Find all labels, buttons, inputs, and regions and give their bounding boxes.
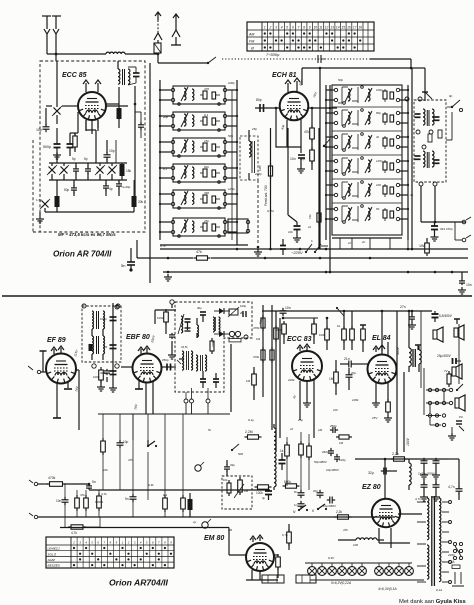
wire V4 pins bottom xyxy=(138,381,140,389)
component box below EM80 a xyxy=(262,575,284,583)
svg-text:25p: 25p xyxy=(203,219,209,223)
svg-text:470k: 470k xyxy=(253,326,260,330)
ground xyxy=(375,400,377,403)
capacitor C48 260p xyxy=(330,448,332,451)
switch S-tone xyxy=(337,308,344,316)
svg-text:BESZÉD: BESZÉD xyxy=(48,563,61,568)
wire bus left of block C xyxy=(325,85,327,240)
switch S-em xyxy=(231,449,233,451)
dashed box ratio detector outline xyxy=(175,302,252,392)
transformer T7 primary winding lower xyxy=(427,545,429,579)
svg-text:1M: 1M xyxy=(103,345,108,349)
capacitor C31b 27n xyxy=(411,314,413,317)
wire bus B continues xyxy=(211,257,468,259)
wire V3 plate right xyxy=(76,369,79,371)
wire V5 pins top arrows xyxy=(299,347,301,351)
coil L6 heater winding xyxy=(356,538,377,540)
resistor R21b 1k xyxy=(360,324,366,326)
svg-text:17: 17 xyxy=(353,26,357,30)
antenna A3 dipole arrow xyxy=(173,14,179,18)
svg-text:72k: 72k xyxy=(308,214,312,219)
transformer TF3 secondary xyxy=(205,355,207,371)
resistor P3b 10k xyxy=(228,480,230,483)
wire unit B4 right stubs xyxy=(227,167,237,169)
transformer TF3 core xyxy=(200,355,202,371)
svg-text:50p: 50p xyxy=(64,188,70,192)
coil L3 tunable xyxy=(181,316,183,333)
svg-text:4p: 4p xyxy=(109,187,113,191)
coil unit C6 resistor xyxy=(390,211,394,218)
capacitor CF7 dark xyxy=(213,378,219,380)
svg-text:6p: 6p xyxy=(449,94,453,98)
svg-text:4,7k: 4,7k xyxy=(101,492,107,496)
svg-text:100k: 100k xyxy=(157,316,164,320)
coil unit C5 tunable coil a xyxy=(348,184,350,196)
trimmer C-top xyxy=(425,92,432,99)
wire box E internals xyxy=(91,329,93,336)
trimmer CF4 2k xyxy=(229,309,238,315)
coil L5 filter choke xyxy=(409,463,411,485)
node phono terminal row 4 xyxy=(435,423,438,426)
wire V3 pins bottom xyxy=(56,383,58,412)
svg-text:3k: 3k xyxy=(410,193,414,197)
wire top bus y68 xyxy=(302,67,411,69)
svg-text:10: 10 xyxy=(314,26,318,30)
wire xyxy=(38,483,48,485)
svg-text:220p: 220p xyxy=(254,172,262,176)
svg-text:EM 80: EM 80 xyxy=(204,535,224,542)
wire unit B1 right stubs xyxy=(227,89,237,91)
capacitor T-bar secondary xyxy=(415,344,421,346)
svg-text:6,3V: 6,3V xyxy=(328,556,335,560)
node output terminal AF xyxy=(462,220,466,224)
resistor R11 100k xyxy=(100,367,102,370)
svg-text:25μ/450V: 25μ/450V xyxy=(436,354,451,358)
svg-text:18: 18 xyxy=(358,26,362,30)
svg-text:50p: 50p xyxy=(228,134,233,138)
wire antenna bus to coil xyxy=(47,53,106,55)
svg-text:10p: 10p xyxy=(123,440,129,444)
svg-text:Ø: Ø xyxy=(250,46,254,50)
coil unit C2 internal wires xyxy=(341,110,343,126)
capacitor C9c 5p xyxy=(87,166,89,169)
svg-text:10p: 10p xyxy=(36,128,42,132)
capacitor CD1 dark xyxy=(415,113,421,115)
capacitor C24a 100p xyxy=(110,316,117,318)
wire T7 taps left xyxy=(417,501,426,503)
svg-text:80p: 80p xyxy=(376,111,381,115)
wire below box D xyxy=(420,186,422,222)
resistor R20 1k xyxy=(343,326,345,329)
svg-text:ECC 85: ECC 85 xyxy=(62,72,87,79)
capacitor CD3 dark xyxy=(415,155,421,157)
resistor R31 xyxy=(102,438,104,441)
coil unit C1 internal wires xyxy=(341,87,343,103)
switch S1 band arrow xyxy=(208,57,216,63)
wire bus tone y517 xyxy=(38,516,395,518)
resistor RD1 xyxy=(428,134,432,142)
coil block C outer frame xyxy=(332,85,402,235)
coil unit C3 tunable coil a xyxy=(348,136,350,148)
coil unit B1 tunable coil xyxy=(184,88,186,100)
svg-text:324 470p: 324 470p xyxy=(440,227,453,231)
wire top feed y66 xyxy=(411,67,425,69)
wire block C bottom to bus xyxy=(332,237,402,239)
transformer T7 secondary winding xyxy=(439,498,441,582)
tube V3 EF 89 xyxy=(46,354,76,384)
svg-text:4÷20p: 4÷20p xyxy=(122,185,131,189)
table dots xyxy=(73,547,75,549)
transformer T2 secondary xyxy=(432,151,434,167)
transformer T6 secondary xyxy=(419,350,421,364)
wire V1 cathode leads xyxy=(77,112,79,133)
wire V6 pins xyxy=(387,342,389,356)
svg-text:1k: 1k xyxy=(290,427,294,431)
transformer T-FM core xyxy=(122,69,124,85)
svg-text:11: 11 xyxy=(319,26,323,30)
svg-text:390: 390 xyxy=(204,191,209,195)
capacitor CF1 xyxy=(185,318,191,320)
resistor R37 2,2k xyxy=(335,516,338,518)
svg-text:5n: 5n xyxy=(125,497,129,501)
transformer TF2 primary xyxy=(182,351,184,370)
svg-text:0,1μ: 0,1μ xyxy=(248,418,254,422)
coil unit B4 terminals xyxy=(171,166,174,169)
dashed box FM tuner unit xyxy=(40,61,145,232)
wire FM tuning band bottom bus xyxy=(49,179,127,181)
transformer T3 core xyxy=(96,311,98,329)
svg-text:20p: 20p xyxy=(351,371,356,375)
svg-text:100p: 100p xyxy=(100,317,107,321)
capacitor CF8 xyxy=(179,358,183,360)
svg-text:1n: 1n xyxy=(294,503,298,507)
wire AGC loop xyxy=(155,309,176,311)
capacitor CD4 dark xyxy=(434,159,440,161)
table label column line xyxy=(261,22,263,51)
svg-text:10n: 10n xyxy=(290,157,296,161)
wire bus B with resistor xyxy=(137,257,193,259)
wire mains connections xyxy=(297,248,306,250)
svg-text:16: 16 xyxy=(347,26,351,30)
coil unit C4 tunable coil b xyxy=(368,160,370,172)
node circled pins box D bottom xyxy=(419,182,423,186)
coil unit C2 tunable coil a xyxy=(348,112,350,124)
resistor R4 47k xyxy=(311,125,313,128)
coil unit C3 internal wires xyxy=(341,134,343,150)
wire unit C1 stubs xyxy=(326,89,334,91)
dashed box pot unit xyxy=(222,476,252,509)
svg-text:125p: 125p xyxy=(228,187,235,191)
wire box F bottom stubs xyxy=(185,392,187,399)
capacitor C36b xyxy=(435,482,437,485)
tube V2 ECH 81 xyxy=(280,92,309,121)
svg-text:10n: 10n xyxy=(333,408,338,412)
transformer TF3 primary xyxy=(196,355,198,371)
svg-text:22k: 22k xyxy=(102,468,108,472)
speaker LS3 xyxy=(452,367,456,376)
wire coil to dipole node xyxy=(125,53,158,55)
svg-text:47k: 47k xyxy=(80,493,85,497)
svg-text:Orion AR 704/II: Orion AR 704/II xyxy=(53,250,112,259)
pushbutton table frame xyxy=(46,537,174,568)
wire bus tone y490 xyxy=(89,489,270,491)
svg-text:5n: 5n xyxy=(208,428,212,432)
coil unit B2 box xyxy=(173,112,225,130)
node phono terminal row 1 xyxy=(428,388,431,391)
capacitor CF5 100p xyxy=(242,311,244,317)
svg-text:40p: 40p xyxy=(197,306,202,310)
svg-text:4μ: 4μ xyxy=(262,496,266,500)
svg-text:100p: 100p xyxy=(376,88,383,92)
wire tone feeds from above xyxy=(98,413,230,415)
capacitor C24c 400p xyxy=(110,370,117,372)
svg-text:10μ/380V: 10μ/380V xyxy=(323,504,336,508)
svg-text:2×50μ/350V: 2×50μ/350V xyxy=(418,472,436,476)
wire V4 pins top arrows xyxy=(140,349,142,354)
coil unit B6 tunable coil xyxy=(184,220,186,232)
lamp LB4 xyxy=(408,563,410,567)
ground xyxy=(300,166,302,169)
node phono terminal row 2 xyxy=(428,401,431,404)
antenna A2 FM dipole arrow xyxy=(155,12,161,16)
svg-text:FM: FM xyxy=(249,39,254,43)
coil unit C2 resistor xyxy=(390,115,394,122)
node circled pins box D top xyxy=(405,97,409,101)
coil unit B3 coil secondary xyxy=(192,141,194,152)
capacitor C4 10p xyxy=(45,124,47,127)
ground xyxy=(451,433,453,436)
tube V6 EL 84 xyxy=(368,355,397,384)
switch S-band top xyxy=(323,145,325,147)
ground xyxy=(112,385,114,388)
svg-text:10n: 10n xyxy=(56,499,62,503)
wire unit B3 right stubs xyxy=(227,141,237,143)
svg-text:1k: 1k xyxy=(337,324,341,328)
wire bus right of block C xyxy=(407,85,409,240)
svg-text:5n: 5n xyxy=(92,480,96,484)
svg-text:15k: 15k xyxy=(126,169,132,173)
wire bus C y272 xyxy=(163,271,468,273)
node circled pins mid xyxy=(416,130,420,134)
antenna A3 fork xyxy=(172,30,180,37)
wire column x113 xyxy=(112,303,114,385)
wire vertical x330 xyxy=(329,85,331,272)
ground xyxy=(434,234,436,237)
svg-text:6,8/450V: 6,8/450V xyxy=(439,314,453,318)
svg-text:220k: 220k xyxy=(276,328,283,332)
wire unit C6 stubs xyxy=(326,208,334,210)
capacitor C40 10n xyxy=(64,484,66,498)
trimmer C10 xyxy=(97,167,104,174)
svg-text:2,2k: 2,2k xyxy=(392,452,399,456)
capacitor C49 100p xyxy=(336,454,338,457)
coil unit C3 capacitor xyxy=(383,138,387,146)
coil unit B2 tunable coil xyxy=(184,114,186,126)
wire V2 plate right xyxy=(308,107,337,109)
wire V6 pins top arrows xyxy=(375,348,377,352)
coil unit C3 resistor xyxy=(390,139,394,146)
transformer T1 secondary xyxy=(432,109,434,125)
coil unit C4 tunable coil a xyxy=(348,160,350,172)
transformer TF2 core xyxy=(186,351,188,370)
svg-text:1M: 1M xyxy=(318,428,323,432)
antenna A2 fork xyxy=(154,33,162,40)
svg-text:MF = 473,5 kc/s és 96,7 Mc/s: MF = 473,5 kc/s és 96,7 Mc/s xyxy=(58,232,116,237)
wire antenna into tuner box xyxy=(55,54,57,61)
node input terminal 1 xyxy=(34,482,37,485)
wire block B bottom xyxy=(160,244,248,246)
resistor R18a 220k xyxy=(283,321,285,324)
svg-text:5: 5 xyxy=(286,26,288,30)
transformer T7 power core xyxy=(431,496,433,586)
svg-text:6: 6 xyxy=(292,26,294,30)
coil unit B4 coil secondary xyxy=(192,167,194,178)
capacitor C-4p xyxy=(105,183,107,186)
svg-text:4,7k: 4,7k xyxy=(160,244,166,248)
trimmer C-1-5p xyxy=(42,201,49,208)
lamp LB3 xyxy=(398,563,400,567)
ground xyxy=(56,152,58,155)
node indicator terminal b xyxy=(202,522,208,528)
capacitor C21 input T-bar xyxy=(40,350,47,352)
capacitor C-32p xyxy=(226,464,228,467)
coil unit C5 capacitor xyxy=(383,186,387,194)
ground xyxy=(296,235,298,238)
resistor R27 470k xyxy=(47,483,50,485)
svg-text:5×6,3V|0,22A: 5×6,3V|0,22A xyxy=(331,581,352,585)
wire V8 pins bottom xyxy=(251,570,253,580)
svg-text:5p: 5p xyxy=(84,157,88,161)
wire A2 dashed section xyxy=(157,20,159,33)
wire unit B4 left stubs xyxy=(160,167,171,169)
svg-text:32p: 32p xyxy=(230,463,235,467)
svg-text:470: 470 xyxy=(204,87,209,91)
svg-text:100k: 100k xyxy=(319,333,326,337)
capacitor C43 5n xyxy=(300,490,302,493)
wire xyxy=(132,414,134,495)
speaker LS4 xyxy=(455,398,459,408)
coil L-ferrite xyxy=(249,141,251,157)
svg-text:680k: 680k xyxy=(284,480,291,484)
coil unit B6 capacitor xyxy=(203,223,207,231)
coil unit C4 terminals xyxy=(334,159,337,162)
component Z1 lightning arrestor xyxy=(154,43,161,53)
svg-text:25p: 25p xyxy=(251,127,257,131)
svg-text:AM: AM xyxy=(248,32,254,36)
svg-text:1M5: 1M5 xyxy=(258,165,262,171)
coil unit B4 tunable coil xyxy=(184,166,186,178)
coil unit B3 tunable coil xyxy=(184,140,186,152)
capacitor C7 xyxy=(140,122,142,125)
resistor R17 xyxy=(275,325,277,328)
coil unit C1 resistor xyxy=(390,92,394,99)
diode D1 xyxy=(219,308,224,314)
svg-text:0,1: 0,1 xyxy=(204,113,209,117)
svg-text:7÷500p: 7÷500p xyxy=(266,52,280,57)
node phono terminal row 3 xyxy=(428,414,431,417)
svg-text:47k: 47k xyxy=(343,528,348,532)
svg-text:400p: 400p xyxy=(100,371,107,375)
coil unit B1 terminals xyxy=(171,88,174,91)
wire V5 pins bottom xyxy=(299,381,301,420)
transformer T3 primary xyxy=(92,311,94,329)
wire row 1 xyxy=(426,389,449,391)
wire row 3 xyxy=(426,415,441,417)
coil unit C1 terminals xyxy=(334,88,337,91)
wire unit B2 right stubs xyxy=(227,115,237,117)
resistor R22 cathode xyxy=(387,399,389,402)
transformer T2 primary xyxy=(423,151,425,167)
capacitor C37 4,7n xyxy=(458,486,460,489)
capacitor C44 1n xyxy=(300,501,302,504)
node T7 tap terminals xyxy=(449,501,452,504)
svg-text:25μ: 25μ xyxy=(297,418,303,422)
resistor R2b outline xyxy=(74,133,76,136)
wire grid lead xyxy=(41,371,46,373)
svg-text:~220V: ~220V xyxy=(291,250,303,255)
resistor R18b 220k xyxy=(313,321,315,324)
svg-text:1M: 1M xyxy=(246,379,251,383)
antenna A3 stub xyxy=(175,37,177,45)
svg-text:100k: 100k xyxy=(256,491,263,495)
wire V1 plate right xyxy=(106,105,128,107)
table row lines xyxy=(247,29,374,31)
capacitor C35 xyxy=(423,458,425,461)
switch S5 mains plug xyxy=(454,572,456,584)
svg-text:10k: 10k xyxy=(223,478,228,482)
svg-text:100p: 100p xyxy=(228,81,235,85)
capacitor C36 xyxy=(435,458,437,461)
wire tuner output xyxy=(95,130,97,163)
wire unit B1 left stubs xyxy=(160,89,171,91)
coil unit C4 separator xyxy=(332,154,402,156)
wire vertical x425 xyxy=(424,68,426,101)
antenna A1 lead wires xyxy=(46,16,48,29)
capacitor CF3 40p xyxy=(200,311,206,313)
wire V1 pins top xyxy=(85,83,87,92)
coil unit C6 tunable coil a xyxy=(348,208,350,220)
transformer T-FM primary xyxy=(118,69,120,84)
wire unit B3 left stubs xyxy=(160,141,171,143)
trimmer C11 xyxy=(109,167,116,174)
capacitor C34 32u/380V xyxy=(381,470,384,472)
ground xyxy=(461,287,463,290)
svg-text:1W: 1W xyxy=(419,244,425,248)
component pickup connector xyxy=(456,420,462,422)
svg-text:50μ/380V: 50μ/380V xyxy=(314,460,328,464)
wire bus right of coil block xyxy=(236,80,238,245)
coil unit B6 coil secondary xyxy=(192,221,194,232)
capacitor C41 10p xyxy=(119,440,121,443)
wire main RF line xyxy=(158,62,208,64)
tube V8 EM 80 xyxy=(246,543,274,571)
coil unit C2 capacitor xyxy=(383,114,387,122)
antenna A3 end bar xyxy=(171,44,181,46)
ground xyxy=(53,417,61,419)
resistor RF2 1M xyxy=(253,371,255,374)
wire unit C3 stubs xyxy=(326,136,334,138)
coil unit C6 tunable coil b xyxy=(368,208,370,220)
svg-text:20n: 20n xyxy=(313,489,318,493)
coil unit B1 coil secondary xyxy=(192,89,194,100)
resistor R-20k dark xyxy=(132,196,137,207)
resistor R-72k xyxy=(318,210,320,213)
capacitor C-mains dark xyxy=(280,245,286,247)
svg-text:100k: 100k xyxy=(352,398,359,402)
node circled pins bottom xyxy=(184,399,188,403)
resistor R7 47k xyxy=(194,257,197,259)
ground xyxy=(306,400,308,403)
